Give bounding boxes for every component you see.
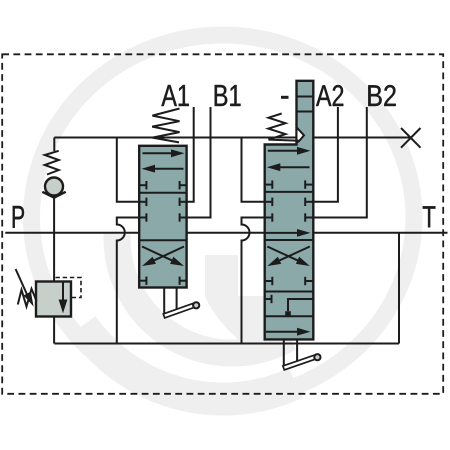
spring valve V1	[152, 109, 179, 143]
valve V2 kickout pilot line	[288, 299, 313, 311]
watermark logo bar terminal	[205, 255, 290, 347]
watermark logo outer ring	[32, 35, 415, 400]
wire: to relief valve	[53, 198, 55, 282]
valve V2 body with detent stack	[265, 81, 314, 340]
node X closed carryover port	[401, 128, 421, 148]
wire: relief outlet	[53, 317, 55, 344]
label T	[423, 206, 436, 227]
lever valve V1	[163, 288, 165, 316]
valve V2 center blocked ports row2	[265, 217, 273, 219]
wire: B2 line	[313, 107, 367, 218]
valve V1 center blocked ports row1	[139, 201, 146, 203]
valve V2 position3 blocked ports	[265, 280, 273, 282]
valve V1 position1 flow arrows	[143, 152, 174, 154]
wire: A2 line	[313, 107, 338, 202]
spring check valve	[45, 151, 59, 175]
detent notch	[297, 127, 305, 143]
wire: B1 line	[187, 107, 211, 218]
wire: P-T rail	[5, 232, 447, 234]
valve V2 position3 crossed arrows	[267, 247, 299, 262]
wire: A1 line	[187, 107, 194, 202]
watermark logo inner swirl	[117, 234, 289, 353]
relief valve adjustment arrow	[16, 269, 28, 296]
wire: valve1 feed from top line	[117, 138, 140, 202]
valve V1 position3 crossed arrows	[142, 247, 174, 262]
spring valve V2	[268, 114, 299, 141]
wire: valve2 feed from top line	[242, 138, 265, 202]
valve V2 section divider 2	[265, 239, 314, 241]
wire: tank riser right	[398, 233, 400, 344]
valve V1 section divider 1	[139, 192, 186, 194]
valve V2 section divider 4	[265, 315, 314, 317]
relief valve pilot line (dashed)	[56, 278, 82, 298]
valve V2 section divider 1	[265, 191, 314, 193]
wire: top carryover line	[54, 137, 411, 139]
wire: bottom tank rail	[54, 343, 399, 345]
valve V1 position3 blocked ports	[139, 280, 146, 282]
valve V1 center blocked ports row2	[139, 217, 146, 219]
minus mark	[281, 96, 289, 99]
wire: inlet riser	[53, 138, 55, 152]
valve V2 position1 blocked ports	[265, 184, 273, 186]
label A1	[161, 85, 188, 106]
label A2	[316, 85, 343, 106]
valve V2 position1 flow arrows	[268, 150, 300, 152]
watermark logo bottom thick arc	[82, 326, 296, 399]
valve V2 center flow arrow	[266, 232, 300, 234]
valve V2 kickout square	[285, 311, 291, 317]
relief valve spring	[18, 289, 37, 307]
valve V1 body	[139, 146, 186, 288]
wire: valve2 return with rail jump	[242, 218, 265, 344]
relief valve box	[36, 282, 71, 317]
wire: valve1 return with rail jump	[117, 218, 140, 344]
valve V1 position1 blocked ports	[139, 184, 146, 186]
valve V2 section divider 3	[265, 291, 314, 293]
check valve ball	[45, 178, 63, 196]
dashed enclosure border	[2, 54, 443, 394]
check valve seat	[42, 192, 65, 198]
valve V2 center blocked ports row1	[265, 201, 273, 203]
lever valve V2	[283, 339, 285, 367]
detent stack divider 1	[297, 96, 314, 98]
relief valve flow arrow	[62, 282, 64, 301]
label B1	[215, 85, 241, 106]
label P	[13, 206, 24, 228]
detent stack divider 2	[297, 111, 314, 113]
valve V2 position4 flow arrow	[266, 331, 300, 333]
valve V1 section divider 2	[139, 239, 186, 241]
label B2	[368, 85, 395, 106]
valve V2 position4 blocked port	[265, 298, 272, 300]
